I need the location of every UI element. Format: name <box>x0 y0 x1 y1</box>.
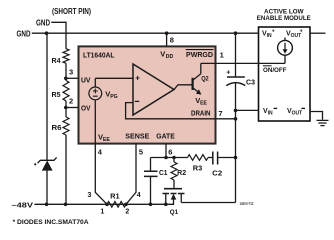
svg-text:UV: UV <box>81 75 91 84</box>
svg-text:C1: C1 <box>159 170 168 177</box>
svg-text:OV: OV <box>81 104 91 113</box>
svg-text:OUT: OUT <box>292 111 303 117</box>
svg-text:3: 3 <box>88 192 92 199</box>
svg-text:R5: R5 <box>52 92 61 99</box>
svg-text:R6: R6 <box>52 125 62 132</box>
svg-text:IN: IN <box>268 111 273 117</box>
svg-text:LT1640AL: LT1640AL <box>83 50 115 59</box>
svg-text:C2: C2 <box>212 170 222 177</box>
svg-text:C3: C3 <box>246 77 255 86</box>
svg-text:DD: DD <box>166 54 174 60</box>
svg-text:–48V: –48V <box>12 200 34 209</box>
svg-text:R1: R1 <box>110 194 120 201</box>
svg-text:R4: R4 <box>52 58 61 65</box>
svg-text:+: + <box>272 29 275 35</box>
svg-text:7: 7 <box>218 109 222 118</box>
svg-text:* DIODES INC.SMAT70A: * DIODES INC.SMAT70A <box>13 219 89 226</box>
svg-text:Q1: Q1 <box>170 209 179 216</box>
svg-text:+: + <box>300 29 303 35</box>
svg-text:EE: EE <box>200 101 207 107</box>
svg-text:PG: PG <box>110 94 118 100</box>
svg-text:(SHORT PIN): (SHORT PIN) <box>52 7 91 16</box>
svg-text:GND: GND <box>36 18 50 27</box>
svg-text:ENABLE MODULE: ENABLE MODULE <box>257 15 311 22</box>
svg-text:DRAIN: DRAIN <box>191 109 211 118</box>
svg-text:3: 3 <box>69 68 73 77</box>
svg-text:1: 1 <box>220 51 224 60</box>
svg-text:+: + <box>226 68 230 77</box>
svg-text:GATE: GATE <box>156 132 175 141</box>
svg-text:6: 6 <box>168 148 172 157</box>
svg-text:ON/OFF: ON/OFF <box>263 67 287 74</box>
svg-text:GND: GND <box>17 30 31 39</box>
svg-text:1: 1 <box>100 209 104 216</box>
svg-text:EE: EE <box>103 137 110 143</box>
svg-text:8: 8 <box>170 36 174 45</box>
svg-text:R3: R3 <box>193 166 203 173</box>
svg-text:Q2: Q2 <box>201 75 209 82</box>
svg-text:4: 4 <box>137 192 141 199</box>
svg-text:PWRGD: PWRGD <box>186 50 214 59</box>
svg-text:2: 2 <box>69 97 73 106</box>
svg-text:+: + <box>135 74 140 83</box>
svg-text:SENSE: SENSE <box>125 132 149 141</box>
svg-text:R2: R2 <box>177 170 186 177</box>
svg-text:2: 2 <box>125 209 129 216</box>
svg-text:V: V <box>160 50 165 59</box>
svg-text:5: 5 <box>139 148 143 157</box>
svg-text:1640A F12: 1640A F12 <box>240 201 254 206</box>
